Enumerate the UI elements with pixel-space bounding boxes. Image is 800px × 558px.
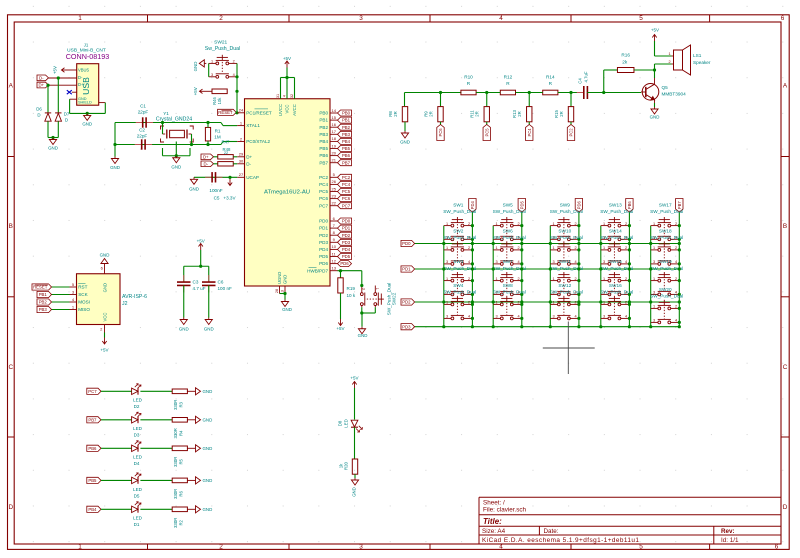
svg-text:GND: GND <box>203 446 213 451</box>
svg-text:PB7: PB7 <box>677 201 682 209</box>
global label PC5 <box>483 125 490 141</box>
svg-text:MOSI: MOSI <box>78 300 90 305</box>
global label PB6 matrix column <box>626 199 633 213</box>
svg-text:22: 22 <box>331 201 336 206</box>
svg-text:+5V: +5V <box>53 66 58 74</box>
ground led row PB6 <box>187 447 193 449</box>
svg-text:PC6: PC6 <box>438 128 443 137</box>
ground MCU <box>284 300 286 302</box>
svg-text:4: 4 <box>468 260 470 264</box>
svg-text:PD6: PD6 <box>576 201 581 210</box>
pin 3 GND U1 <box>284 286 286 294</box>
global label PC2 <box>567 125 574 141</box>
junction on shield wire <box>86 112 89 115</box>
svg-text:4: 4 <box>675 319 677 323</box>
wire matrix column PD4 <box>471 212 473 327</box>
svg-text:D6: D6 <box>36 106 42 111</box>
svg-text:D-: D- <box>78 75 83 80</box>
svg-text:SW1: SW1 <box>453 202 464 207</box>
svg-text:+5V: +5V <box>336 326 344 331</box>
wire VCC J2 <box>104 333 106 338</box>
svg-text:D: D <box>8 504 13 511</box>
svg-text:2: 2 <box>625 222 627 226</box>
svg-text:PB6: PB6 <box>319 153 328 158</box>
svg-text:UVCC: UVCC <box>278 104 283 116</box>
title block <box>478 497 480 544</box>
svg-text:R: R <box>506 81 510 86</box>
svg-text:D7: D7 <box>64 111 70 116</box>
junction reset net <box>235 111 238 114</box>
svg-text:1: 1 <box>603 301 605 305</box>
svg-text:30: 30 <box>239 159 244 164</box>
wire C3 to gnd <box>183 286 185 318</box>
svg-text:2: 2 <box>575 222 577 226</box>
svg-text:1: 1 <box>553 222 555 226</box>
svg-text:SCK: SCK <box>78 292 88 297</box>
svg-text:SW15: SW15 <box>609 259 622 264</box>
junction matrix col2 row3 <box>492 300 495 303</box>
junction matrix col5 row1 <box>649 242 652 245</box>
ground led row PC7 <box>187 390 193 392</box>
svg-text:6: 6 <box>333 216 336 221</box>
global label PC7 led row <box>87 388 101 394</box>
svg-text:R4: R4 <box>179 430 184 436</box>
junction matrix col5 row4 <box>649 325 652 328</box>
svg-text:2R: 2R <box>475 111 480 117</box>
global label PD6 matrix column <box>575 199 582 213</box>
wire PB4 to LED <box>101 508 132 510</box>
global label PD4 matrix column <box>469 199 476 213</box>
global label PB5 led row <box>87 477 101 483</box>
svg-text:28: 28 <box>275 289 279 293</box>
junction matrix col2 row2 <box>492 267 495 270</box>
svg-text:3: 3 <box>359 544 363 551</box>
pin 17 PB3 U1 <box>330 133 338 135</box>
global label PB7 matrix column <box>676 199 683 213</box>
svg-text:SW10: SW10 <box>558 228 571 233</box>
svg-text:GND: GND <box>358 333 368 338</box>
svg-text:3: 3 <box>281 290 285 292</box>
junction matrix col1 row1 <box>442 242 445 245</box>
svg-text:2R: 2R <box>428 111 433 117</box>
svg-text:100 nF: 100 nF <box>218 286 232 291</box>
wire SW21 right <box>236 63 238 112</box>
svg-text:AVR-ISP-6: AVR-ISP-6 <box>122 294 147 300</box>
wire crystal gnd loop <box>175 142 177 156</box>
svg-text:UCAP: UCAP <box>246 175 259 180</box>
svg-text:6: 6 <box>775 544 779 551</box>
svg-text:2: 2 <box>668 60 670 64</box>
svg-text:5: 5 <box>639 15 643 22</box>
svg-text:SW19: SW19 <box>659 259 672 264</box>
svg-text:2R: 2R <box>559 111 564 117</box>
svg-text:4: 4 <box>575 260 577 264</box>
svg-text:HWB/PD7: HWB/PD7 <box>307 268 328 273</box>
svg-text:PB4: PB4 <box>319 139 328 144</box>
ground under USB <box>86 113 88 115</box>
power +5V at MCU <box>286 61 288 68</box>
ground at SW21 <box>204 62 206 64</box>
wire XTAL2 net <box>115 144 221 146</box>
svg-text:R20: R20 <box>344 461 349 469</box>
wire caps to ground <box>114 123 116 157</box>
resistor R46 <box>212 89 227 94</box>
wire PC7 to LED <box>101 390 132 392</box>
svg-text:330R: 330R <box>173 518 178 528</box>
svg-text:2: 2 <box>468 246 470 250</box>
svg-text:PB4: PB4 <box>342 139 351 144</box>
svg-text:PC4: PC4 <box>342 182 351 187</box>
svg-text:PB1: PB1 <box>319 118 328 123</box>
wire PB3 to J2 <box>52 309 70 311</box>
svg-text:1: 1 <box>553 277 555 281</box>
svg-text:A: A <box>783 83 788 90</box>
svg-text:+5V: +5V <box>350 376 358 381</box>
svg-text:GND: GND <box>48 146 58 151</box>
svg-text:D+: D+ <box>246 154 252 159</box>
wire XTAL1 net <box>115 122 221 124</box>
svg-text:SW_Push_Dual: SW_Push_Dual <box>550 235 583 240</box>
svg-text:PB6: PB6 <box>88 446 97 451</box>
resistor R1 <box>205 127 210 141</box>
LED D3 <box>132 417 138 423</box>
svg-text:7: 7 <box>333 223 336 228</box>
svg-text:D: D <box>783 504 788 511</box>
wire matrix column stub 1 <box>443 226 445 327</box>
svg-text:SW_Push_Dual: SW_Push_Dual <box>550 290 583 295</box>
wire matrix row PD2 <box>415 301 680 303</box>
svg-text:LED: LED <box>133 426 143 431</box>
svg-text:Date:: Date: <box>544 528 559 535</box>
svg-text:1: 1 <box>495 301 497 305</box>
global label D+ at MCU <box>201 154 214 160</box>
svg-text:SW6: SW6 <box>503 228 514 233</box>
svg-text:SW5: SW5 <box>503 202 514 207</box>
pin 4 MOSI J2 <box>70 301 77 303</box>
LED D2 <box>132 388 138 394</box>
svg-text:R5: R5 <box>179 458 184 464</box>
global label PD3 matrix row <box>401 324 415 330</box>
svg-text:SW_Push_Dual: SW_Push_Dual <box>493 290 526 295</box>
global label PC4 <box>338 181 352 187</box>
wire MCU ground <box>280 293 286 295</box>
resistor R11 <box>484 107 489 122</box>
resistor R5 <box>172 446 187 451</box>
svg-text:+3.3V: +3.3V <box>223 195 236 200</box>
svg-text:4: 4 <box>233 73 235 77</box>
svg-text:1: 1 <box>72 304 75 309</box>
svg-text:23: 23 <box>331 193 336 198</box>
svg-text:18: 18 <box>331 136 336 141</box>
svg-text:PD0: PD0 <box>402 241 411 246</box>
global label PB1 <box>338 117 352 123</box>
svg-text:1: 1 <box>495 222 497 226</box>
svg-text:14: 14 <box>331 108 336 113</box>
pin 25 PC5 U1 <box>330 191 338 193</box>
pin 11 PD5 U1 <box>330 256 338 258</box>
svg-text:2: 2 <box>517 222 519 226</box>
svg-text:4: 4 <box>517 260 519 264</box>
svg-text:VBUS: VBUS <box>78 68 89 73</box>
svg-text:J1: J1 <box>84 42 89 47</box>
svg-text:2: 2 <box>675 222 677 226</box>
svg-text:PD6: PD6 <box>319 261 328 266</box>
global label PB2 <box>37 299 52 305</box>
svg-text:Rev:: Rev: <box>721 528 735 535</box>
wire SW22 to gnd <box>361 307 363 313</box>
svg-text:GND: GND <box>650 115 660 120</box>
junction D- net <box>57 76 60 79</box>
svg-text:2: 2 <box>625 246 627 250</box>
svg-text:1: 1 <box>240 120 243 125</box>
svg-text:1: 1 <box>603 277 605 281</box>
svg-text:GND: GND <box>82 122 92 127</box>
global label PB6 <box>338 153 352 159</box>
resistor R4 <box>172 418 187 423</box>
svg-text:2: 2 <box>625 301 627 305</box>
svg-text:21: 21 <box>331 158 336 163</box>
svg-text:R1: R1 <box>215 128 221 133</box>
svg-text:R19: R19 <box>347 286 356 291</box>
svg-text:2: 2 <box>468 222 470 226</box>
junction matrix col2 row1 <box>492 242 495 245</box>
wire PB1 to J2 <box>52 294 70 296</box>
global label PD2 <box>338 232 352 238</box>
pin 26 PC4 U1 <box>330 183 338 185</box>
resistor R13 <box>527 107 532 122</box>
capacitor C1 <box>136 122 143 124</box>
svg-text:3: 3 <box>603 315 605 319</box>
pin 8 PD2 U1 <box>330 234 338 236</box>
svg-text:SW11: SW11 <box>559 259 572 264</box>
svg-text:3: 3 <box>495 315 497 319</box>
svg-text:D2: D2 <box>134 404 140 409</box>
svg-text:2: 2 <box>575 301 577 305</box>
wire speaker pin2 <box>654 64 656 70</box>
ground SW22 <box>361 327 363 329</box>
svg-text:B: B <box>783 223 787 230</box>
svg-text:GND: GND <box>282 307 292 312</box>
svg-text:PB1: PB1 <box>39 292 48 297</box>
svg-text:PD2: PD2 <box>319 233 328 238</box>
svg-text:LED: LED <box>343 419 348 427</box>
svg-text:2: 2 <box>517 301 519 305</box>
svg-text:SHIELD: SHIELD <box>78 101 92 105</box>
svg-text:SW18: SW18 <box>659 228 672 233</box>
wire DAC summing node <box>405 92 462 94</box>
svg-text:D-: D- <box>203 161 208 166</box>
svg-text:PB2: PB2 <box>39 300 48 305</box>
svg-text:10k: 10k <box>217 97 222 105</box>
svg-text:2k: 2k <box>622 60 628 65</box>
svg-text:11: 11 <box>332 251 337 256</box>
svg-text:17: 17 <box>331 129 336 134</box>
pin 22 PC7 U1 <box>330 205 338 207</box>
svg-text:PC6: PC6 <box>319 196 328 201</box>
svg-text:GND: GND <box>352 487 357 497</box>
svg-text:4: 4 <box>675 260 677 264</box>
wire ladder tap R13 <box>528 93 530 107</box>
svg-text:29: 29 <box>239 152 244 157</box>
svg-text:GND: GND <box>203 507 213 512</box>
pin 16 PB2 U1 <box>330 126 338 128</box>
wire matrix row PD3 <box>415 326 680 328</box>
global label PB4 <box>338 138 352 144</box>
wire PB2 to J2 <box>52 301 70 303</box>
svg-text:PC7: PC7 <box>319 203 328 208</box>
svg-text:GND: GND <box>283 275 288 284</box>
svg-text:XTAL1: XTAL1 <box>246 123 260 128</box>
svg-text:C1: C1 <box>140 103 146 108</box>
svg-text:+5V: +5V <box>283 56 291 61</box>
svg-text:2: 2 <box>219 544 223 551</box>
pin 24 PC1/RESET U1 <box>237 112 244 114</box>
pin 27 UCAP U1 <box>237 176 244 178</box>
svg-text:LED: LED <box>133 455 143 460</box>
LED D4 <box>132 445 138 451</box>
resistor R12 <box>500 90 515 95</box>
resistor R47 <box>214 156 218 158</box>
svg-text:2R: 2R <box>517 111 522 117</box>
svg-text:PB5: PB5 <box>342 146 351 151</box>
pin SHIELD J1 <box>99 102 106 104</box>
wire crystal pin2 down <box>191 134 193 145</box>
svg-text:R12: R12 <box>504 74 513 79</box>
svg-text:PB5: PB5 <box>319 146 328 151</box>
junction ladder R13 <box>528 91 531 94</box>
LED D1 <box>132 506 138 512</box>
pin 10 PD4 U1 <box>330 248 338 250</box>
wire SW21 left bracket <box>208 63 210 76</box>
diode D7 <box>55 112 61 114</box>
svg-text:+5V: +5V <box>193 87 198 95</box>
svg-text:D3: D3 <box>134 433 140 438</box>
pin 5 PC2 U1 <box>330 176 338 178</box>
global label RESET <box>32 284 52 290</box>
svg-text:27: 27 <box>239 172 244 177</box>
global label PC6 <box>437 125 444 141</box>
svg-text:PD5: PD5 <box>342 254 351 259</box>
capacitor C5 <box>205 176 212 178</box>
cursor crosshair <box>567 322 569 375</box>
svg-text:2R: 2R <box>393 111 398 117</box>
svg-text:PD5: PD5 <box>519 201 524 210</box>
wire matrix column stub 4 <box>600 226 602 327</box>
svg-text:GND: GND <box>110 165 120 170</box>
svg-text:12: 12 <box>331 258 336 263</box>
svg-text:PD5: PD5 <box>319 254 328 259</box>
global label PD1 <box>338 225 352 231</box>
svg-text:PB3: PB3 <box>342 132 351 137</box>
svg-text:SW_Push_Dual: SW_Push_Dual <box>443 235 476 240</box>
junction D+ net <box>46 84 49 87</box>
svg-text:VCC: VCC <box>284 104 289 113</box>
svg-text:SW22: SW22 <box>392 292 397 305</box>
svg-text:1: 1 <box>603 246 605 250</box>
svg-text:PC1/RESET: PC1/RESET <box>246 110 272 115</box>
svg-text:330R: 330R <box>173 489 178 499</box>
wire +5V to D8 <box>354 388 356 420</box>
capacitor C4 <box>577 92 584 94</box>
svg-text:SW_Push_Dual: SW_Push_Dual <box>650 235 683 240</box>
svg-text:R: R <box>549 81 553 86</box>
svg-text:LED: LED <box>133 398 143 403</box>
svg-text:1: 1 <box>375 288 379 290</box>
svg-text:PD3: PD3 <box>402 324 411 329</box>
svg-text:330R: 330R <box>173 428 178 438</box>
svg-text:PC5: PC5 <box>484 128 489 137</box>
svg-text:J2: J2 <box>122 301 128 307</box>
resistor R16 <box>617 68 634 73</box>
svg-text:26: 26 <box>331 179 336 184</box>
svg-text:PB6: PB6 <box>342 153 351 158</box>
svg-text:SW_Push_Dual: SW_Push_Dual <box>650 294 683 299</box>
junction matrix col4 row2 <box>599 267 602 270</box>
svg-text:3: 3 <box>553 315 555 319</box>
global label PB5 <box>338 146 352 152</box>
capacitor C2 <box>135 144 142 146</box>
junction matrix col5 row3 <box>649 300 652 303</box>
wire matrix row PD1 <box>415 268 680 270</box>
svg-text:SW_Push_Dual: SW_Push_Dual <box>443 209 476 214</box>
junction C2 gnd <box>113 143 116 146</box>
svg-text:GND: GND <box>179 326 189 331</box>
svg-text:GND: GND <box>100 253 110 258</box>
svg-text:PC2: PC2 <box>569 128 574 137</box>
svg-text:R6: R6 <box>179 491 184 497</box>
power +5V at R46 <box>206 90 212 92</box>
pin 13 HWB/PD7 U1 <box>330 270 338 272</box>
pin 1 XTAL1 U1 <box>237 125 244 127</box>
svg-text:6: 6 <box>781 15 785 22</box>
svg-text:PC2: PC2 <box>342 175 351 180</box>
global label D+ <box>37 82 49 88</box>
pin 6 PD0 U1 <box>330 220 338 222</box>
ground caps <box>114 157 116 159</box>
pin GND J1 <box>70 98 77 100</box>
wire C4 to Q5 base <box>587 92 603 94</box>
wire PD7 <box>338 270 362 272</box>
svg-text:SW17: SW17 <box>659 202 672 207</box>
svg-text:C: C <box>783 364 788 371</box>
wire LED to resistor R6 <box>140 479 172 481</box>
svg-text:ATmega16U2-AU: ATmega16U2-AU <box>264 189 310 195</box>
svg-text:3: 3 <box>446 260 448 264</box>
ground led row PB7 <box>187 419 193 421</box>
svg-text:2: 2 <box>625 277 627 281</box>
wire matrix column PD5 <box>521 212 523 327</box>
power +5V at VBUS <box>62 69 69 71</box>
wire speaker pin1 <box>654 41 656 56</box>
svg-text:5: 5 <box>639 544 643 551</box>
svg-text:PD2: PD2 <box>342 233 351 238</box>
svg-text:Title:: Title: <box>483 517 502 526</box>
svg-text:C2: C2 <box>139 127 145 132</box>
svg-text:4: 4 <box>283 95 287 97</box>
resistor R19 <box>340 271 342 278</box>
svg-text:2: 2 <box>675 277 677 281</box>
svg-text:PD3: PD3 <box>319 240 328 245</box>
svg-text:2: 2 <box>575 277 577 281</box>
wire matrix column stub 5 <box>650 226 652 327</box>
svg-text:R14: R14 <box>546 74 555 79</box>
svg-text:LED: LED <box>133 516 143 521</box>
svg-text:PC4: PC4 <box>319 182 328 187</box>
svg-text:PD3: PD3 <box>342 240 351 245</box>
ground led row PB4 <box>187 508 193 510</box>
svg-text:PD1: PD1 <box>342 226 351 231</box>
svg-text:PD1: PD1 <box>319 226 328 231</box>
